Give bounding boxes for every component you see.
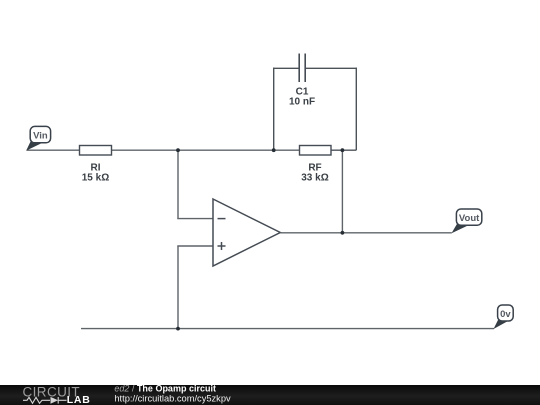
wire: inverting input horizontal	[177, 218, 213, 220]
svg-text:ed2 / The Opamp circuit: ed2 / The Opamp circuit	[114, 384, 216, 394]
wire: non-inverting input to ground rail (vertical)	[177, 246, 179, 329]
flag Vout	[452, 209, 482, 233]
wire: C1 left vertical	[273, 68, 275, 151]
svg-text:Vout: Vout	[459, 213, 480, 224]
wire: op-amp output to Vout	[280, 232, 452, 234]
wire: ground rail 0v	[81, 328, 494, 330]
label RI value	[82, 163, 109, 184]
node: C1 left junction	[272, 148, 276, 152]
resistor RF	[300, 146, 332, 156]
op-amp U1 non-inverting pin mark	[218, 242, 226, 250]
wire: feedback vertical (output to RF/C1)	[341, 150, 343, 233]
logo diode triangle	[51, 397, 59, 404]
node: ground rail junction	[176, 327, 180, 331]
wire: C1 right vertical	[355, 68, 357, 151]
wire: RF right lead to C1 corner	[331, 149, 357, 151]
logo resistor-diode glyph	[23, 397, 67, 404]
wire: Vin to RI	[27, 149, 81, 151]
label RF value	[301, 163, 328, 184]
wire: C1 top left lead	[273, 67, 299, 69]
wire: RI to RF (net IN-)	[111, 149, 300, 151]
svg-text:Vin: Vin	[33, 130, 48, 141]
flag Vin	[26, 126, 50, 150]
resistor RI	[80, 146, 112, 156]
flag 0v	[494, 305, 514, 329]
node: output junction	[341, 231, 345, 235]
wire: non-inverting input horizontal	[177, 245, 213, 247]
svg-text:0v: 0v	[500, 309, 511, 320]
capacitor C1 plates	[299, 54, 305, 83]
wire: C1 top right lead	[306, 67, 357, 69]
svg-text:http://circuitlab.com/cy5zkpv: http://circuitlab.com/cy5zkpv	[114, 394, 231, 404]
node: RI/opamp junction	[176, 148, 180, 152]
svg-text:LAB: LAB	[67, 394, 91, 405]
svg-text:33 kΩ: 33 kΩ	[301, 173, 328, 184]
footer bar	[0, 385, 540, 405]
wire: node to inverting input (vertical)	[177, 150, 179, 218]
label C1 value	[289, 87, 315, 108]
svg-text:10 nF: 10 nF	[289, 97, 315, 108]
node: feedback top junction	[341, 148, 345, 152]
op-amp U1 inverting pin mark	[218, 218, 226, 220]
svg-text:15 kΩ: 15 kΩ	[82, 173, 109, 184]
op-amp U1 body	[213, 199, 280, 266]
